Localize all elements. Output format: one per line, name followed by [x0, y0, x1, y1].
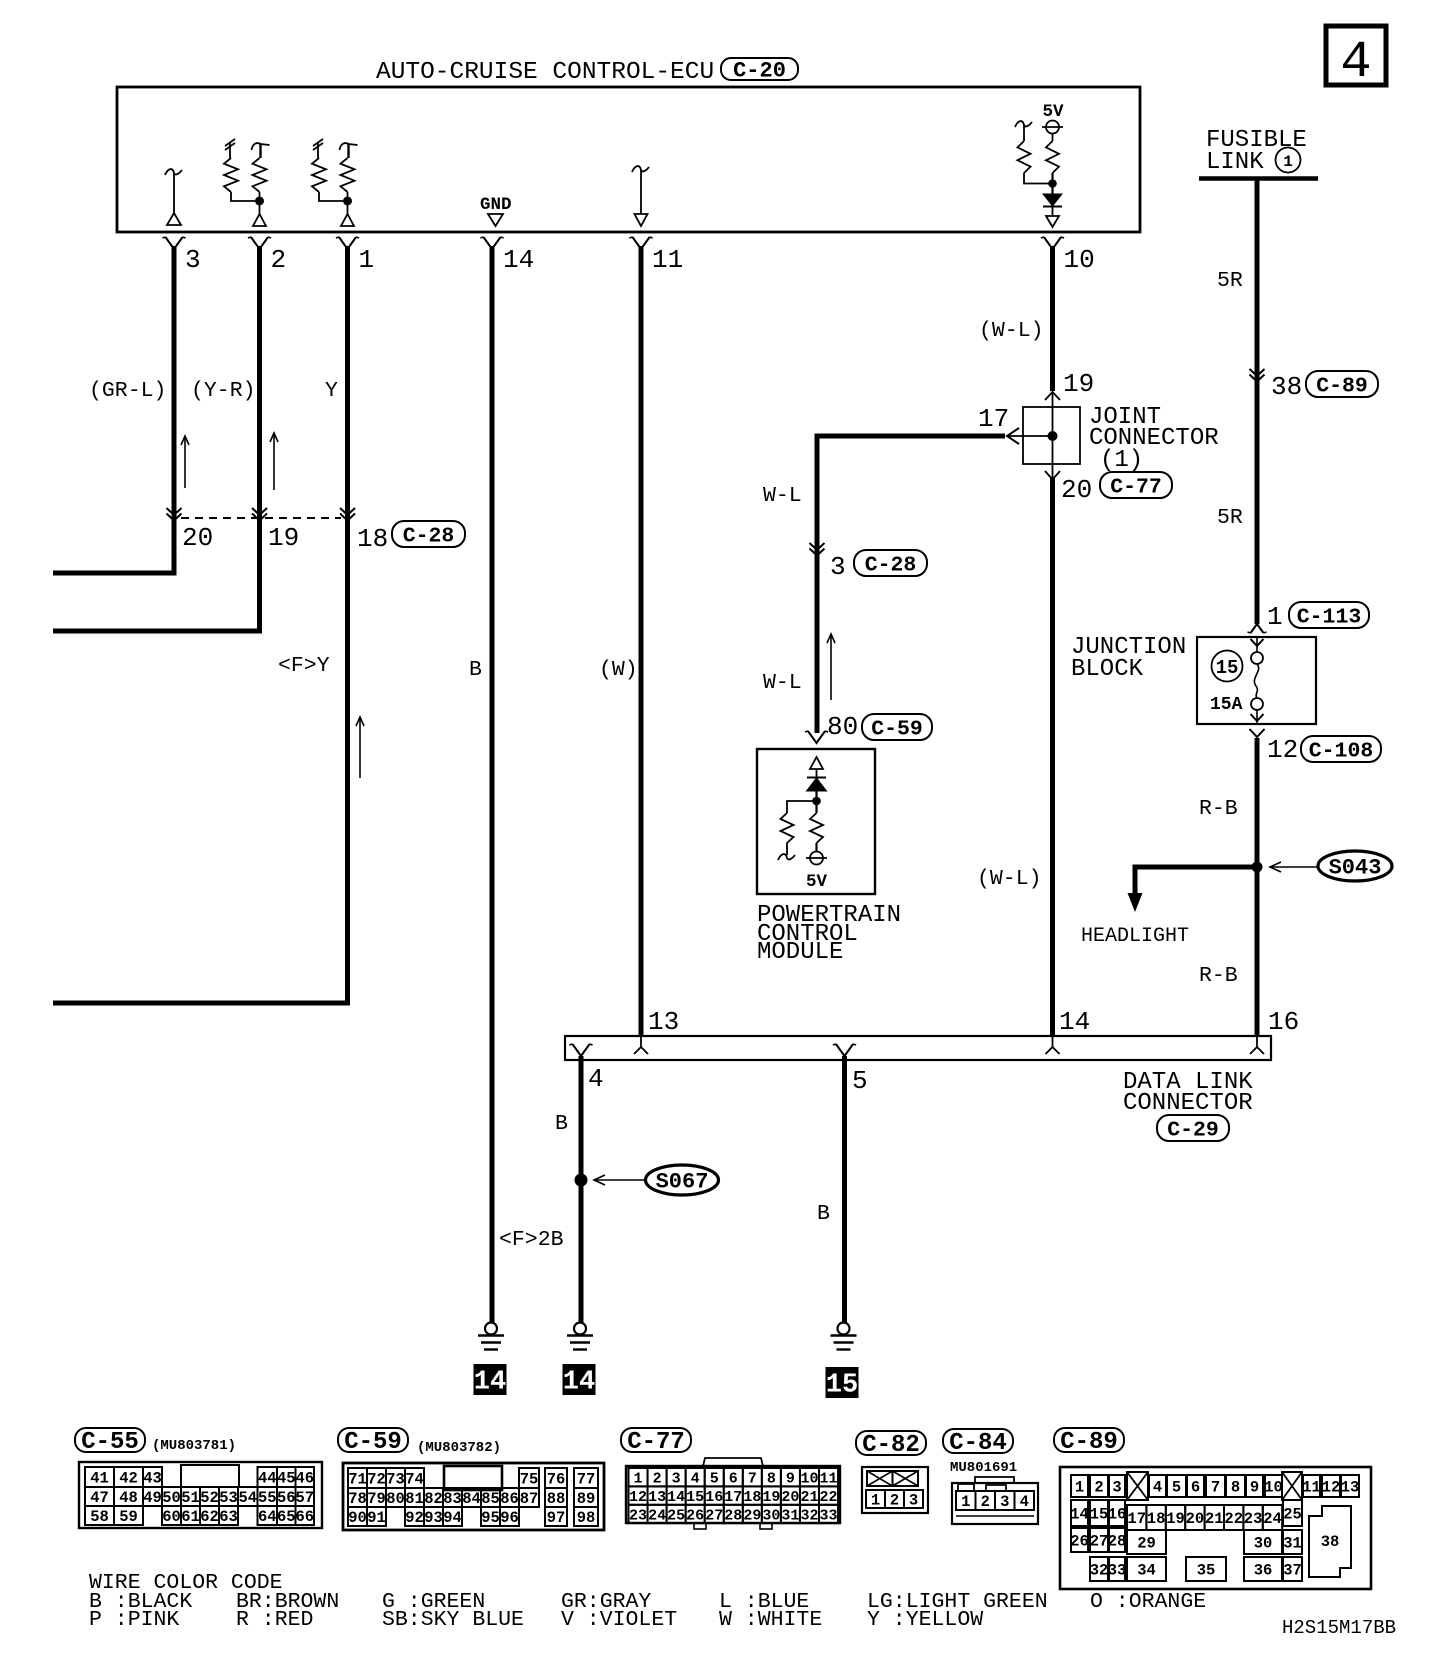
svg-text:88: 88	[547, 1490, 566, 1508]
fusible link bus bar	[1199, 176, 1318, 181]
svg-text:9: 9	[786, 1471, 795, 1488]
svg-text:R-B: R-B	[1199, 797, 1238, 821]
svg-text:C-59: C-59	[871, 717, 923, 741]
svg-text:AUTO-CRUISE CONTROL-ECU: AUTO-CRUISE CONTROL-ECU	[376, 59, 714, 86]
svg-text:W-L: W-L	[763, 671, 802, 695]
svg-text:24: 24	[648, 1507, 666, 1524]
svg-text:29: 29	[1137, 1535, 1156, 1553]
svg-text:24: 24	[1263, 1510, 1282, 1528]
svg-text:W :WHITE: W :WHITE	[719, 1608, 822, 1632]
svg-text:C-77: C-77	[627, 1429, 685, 1456]
PCM internal clamp diode and resistors	[778, 757, 827, 892]
svg-text:5V: 5V	[1042, 102, 1064, 122]
svg-text:20: 20	[182, 523, 213, 553]
svg-text:(MU803782): (MU803782)	[417, 1440, 501, 1456]
connector C-84 pin face	[952, 1477, 1038, 1524]
ECU pin 10	[1041, 237, 1095, 275]
wire colour label 5R lower	[1217, 506, 1243, 530]
connector C-84 label	[943, 1429, 1017, 1476]
svg-text:93: 93	[424, 1509, 443, 1527]
svg-text:1: 1	[1283, 153, 1293, 171]
ECU pin 11	[629, 237, 683, 275]
terminal symbol pin 11 internal (output arrow)	[632, 166, 649, 226]
svg-text:83: 83	[443, 1490, 462, 1508]
svg-text:35: 35	[1197, 1562, 1216, 1580]
connector C-55 label	[75, 1428, 236, 1456]
svg-text:4: 4	[691, 1471, 700, 1488]
up arrow on W-L wire	[827, 634, 835, 700]
svg-text:17: 17	[1127, 1510, 1146, 1528]
svg-text:16: 16	[705, 1489, 723, 1506]
svg-text:6: 6	[1191, 1479, 1200, 1497]
svg-text:73: 73	[386, 1471, 405, 1489]
svg-text:5R: 5R	[1217, 269, 1243, 293]
DLC pin 4	[569, 1044, 603, 1094]
splice S043	[1252, 851, 1393, 881]
svg-text:82: 82	[424, 1490, 443, 1508]
JOINT CONNECTOR (1) label	[1089, 404, 1219, 474]
splice S067	[575, 1165, 719, 1195]
svg-text:85: 85	[481, 1490, 500, 1508]
svg-text:16: 16	[1268, 1007, 1299, 1037]
svg-text:2: 2	[653, 1471, 662, 1488]
svg-text:78: 78	[348, 1490, 367, 1508]
svg-text:49: 49	[143, 1489, 162, 1507]
svg-text:22: 22	[1224, 1510, 1243, 1528]
joint connector (1) box	[1023, 407, 1080, 464]
svg-text:26: 26	[1070, 1533, 1089, 1551]
svg-text:65: 65	[277, 1508, 296, 1526]
svg-text:C-89: C-89	[1060, 1429, 1118, 1456]
svg-text:32: 32	[1090, 1562, 1109, 1580]
svg-text:7: 7	[1211, 1479, 1220, 1497]
wire colour label (F)Y	[278, 654, 330, 678]
svg-text:96: 96	[500, 1509, 519, 1527]
svg-text:57: 57	[295, 1489, 314, 1507]
svg-text:GND: GND	[480, 195, 512, 215]
svg-text:15: 15	[686, 1489, 704, 1506]
wire colour label (F)2B	[499, 1228, 564, 1252]
svg-text:2: 2	[1094, 1479, 1103, 1497]
joint connector pin 19	[1045, 369, 1094, 400]
svg-text:1: 1	[634, 1471, 643, 1488]
svg-text:41: 41	[90, 1470, 109, 1488]
svg-text:R :RED: R :RED	[236, 1608, 313, 1632]
svg-text:14: 14	[474, 1368, 506, 1398]
svg-text:50: 50	[162, 1489, 181, 1507]
svg-text:14: 14	[503, 245, 534, 275]
svg-text:19: 19	[1063, 369, 1094, 399]
connector C-77 pin face	[626, 1458, 840, 1529]
wire colour label R-B upper	[1199, 797, 1238, 821]
svg-text:(W): (W)	[599, 658, 638, 682]
svg-text:C-59: C-59	[344, 1429, 402, 1456]
connector C-59 label	[338, 1428, 501, 1456]
svg-text:<F>2B: <F>2B	[499, 1228, 564, 1252]
svg-text:11: 11	[820, 1471, 838, 1488]
svg-text:80: 80	[827, 712, 858, 742]
svg-text:1: 1	[359, 245, 375, 275]
svg-text:5: 5	[710, 1471, 719, 1488]
ground ref box 14 (right)	[563, 1364, 596, 1398]
svg-text:31: 31	[781, 1507, 799, 1524]
wire colour label 5R upper	[1217, 269, 1243, 293]
svg-text:B: B	[469, 658, 482, 682]
svg-text:15: 15	[1216, 657, 1239, 679]
svg-text:29: 29	[743, 1507, 761, 1524]
resistor pair above pin 1	[312, 139, 358, 226]
junction block pin 1 C-113	[1248, 602, 1370, 633]
svg-text:R-B: R-B	[1199, 964, 1238, 988]
branch wire to headlight with arrow	[1128, 867, 1258, 912]
svg-text:92: 92	[405, 1509, 424, 1527]
svg-text:C-108: C-108	[1309, 739, 1374, 763]
svg-text:SB:SKY BLUE: SB:SKY BLUE	[382, 1608, 524, 1632]
wire colour label (GR-L)	[89, 379, 166, 403]
wire pin 10 (W-L) lower	[1050, 478, 1055, 1036]
svg-text:(GR-L): (GR-L)	[89, 379, 166, 403]
svg-text:3: 3	[672, 1471, 681, 1488]
fuse 15 15A inside junction block	[1210, 637, 1264, 724]
svg-text:37: 37	[1283, 1562, 1302, 1580]
ECU box	[117, 87, 1140, 232]
ground ref box 15	[826, 1367, 859, 1401]
svg-text:5: 5	[852, 1066, 868, 1096]
svg-text:4: 4	[1020, 1493, 1029, 1511]
svg-text:52: 52	[200, 1489, 219, 1507]
svg-text:3: 3	[830, 552, 846, 582]
JUNCTION BLOCK label	[1071, 634, 1186, 683]
up arrow on wire 2	[270, 433, 278, 490]
connector C-89 label	[1054, 1428, 1124, 1456]
svg-text:63: 63	[219, 1508, 238, 1526]
POWERTRAIN CONTROL MODULE label	[757, 902, 901, 966]
svg-text:51: 51	[181, 1489, 200, 1507]
svg-text:9: 9	[1250, 1479, 1259, 1497]
svg-text:4: 4	[1340, 33, 1371, 92]
svg-text:Y :YELLOW: Y :YELLOW	[867, 1608, 983, 1632]
svg-text:87: 87	[520, 1490, 539, 1508]
svg-text:22: 22	[820, 1489, 838, 1506]
svg-text:33: 33	[820, 1507, 838, 1524]
svg-text:MODULE: MODULE	[757, 939, 843, 966]
ground ref box 14 (left)	[474, 1364, 507, 1398]
svg-text:(W-L): (W-L)	[977, 867, 1042, 891]
svg-text:MU801691: MU801691	[950, 1460, 1017, 1476]
svg-text:16: 16	[1108, 1506, 1127, 1524]
svg-text:BLOCK: BLOCK	[1071, 656, 1144, 683]
svg-text:27: 27	[1090, 1533, 1109, 1551]
svg-text:1: 1	[961, 1493, 970, 1511]
ground for ECU pin 14 wire	[478, 1323, 504, 1350]
connector C-55 pin face	[79, 1462, 322, 1528]
svg-text:76: 76	[547, 1471, 566, 1489]
wire pin 1 Y	[53, 246, 348, 1003]
svg-text:18: 18	[743, 1489, 761, 1506]
ECU pin 2	[248, 237, 286, 275]
svg-text:58: 58	[90, 1508, 109, 1526]
svg-text:O :ORANGE: O :ORANGE	[1090, 1590, 1206, 1614]
wire pin 11 (W)	[639, 246, 644, 1036]
svg-text:43: 43	[143, 1470, 162, 1488]
svg-text:84: 84	[462, 1490, 481, 1508]
DATA LINK CONNECTOR C-29 label	[1123, 1069, 1253, 1142]
svg-text:C-84: C-84	[949, 1430, 1007, 1457]
svg-text:S067: S067	[656, 1169, 709, 1194]
svg-text:59: 59	[119, 1508, 138, 1526]
joint connector pin 20	[1045, 471, 1172, 505]
svg-text:45: 45	[277, 1470, 296, 1488]
svg-text:36: 36	[1254, 1562, 1273, 1580]
svg-text:<F>Y: <F>Y	[278, 654, 330, 678]
wire pin 14 B	[490, 246, 495, 1322]
svg-text:42: 42	[119, 1470, 138, 1488]
svg-text:19: 19	[762, 1489, 780, 1506]
connector C-59 pin face	[343, 1463, 604, 1530]
svg-text:44: 44	[258, 1470, 277, 1488]
wire pin 10 (W-L) upper	[1050, 246, 1055, 391]
svg-text:3: 3	[909, 1492, 918, 1510]
wire colour label (Y-R)	[191, 379, 256, 403]
svg-text:12: 12	[1267, 735, 1298, 765]
svg-text:38: 38	[1271, 372, 1302, 402]
pin 20 label	[182, 523, 213, 553]
in-line connector C-28 chevrons and dashed link	[167, 508, 356, 521]
svg-text:15A: 15A	[1210, 695, 1243, 715]
wire pin 3 (GR-L)	[53, 246, 174, 573]
svg-text:98: 98	[577, 1509, 596, 1527]
svg-text:5V: 5V	[806, 872, 828, 892]
wire colour label B (DLC 5)	[817, 1202, 830, 1226]
svg-text:C-55: C-55	[81, 1429, 139, 1456]
DLC pin 14	[1046, 1007, 1091, 1054]
svg-text:11: 11	[652, 245, 683, 275]
svg-text:11: 11	[1302, 1479, 1321, 1497]
svg-text:86: 86	[500, 1490, 519, 1508]
PCM pin 80 and C-59 ref	[805, 712, 932, 743]
connector C-89 pin face	[1060, 1467, 1371, 1589]
svg-text:25: 25	[667, 1507, 685, 1524]
svg-text:19: 19	[268, 523, 299, 553]
joint connector pin 17 label	[978, 404, 1009, 434]
wire 5R upper	[1255, 178, 1260, 624]
svg-text:62: 62	[200, 1508, 219, 1526]
svg-text:17: 17	[724, 1489, 742, 1506]
ground for DLC pin 4 wire	[567, 1323, 593, 1350]
svg-text:18: 18	[357, 524, 388, 554]
svg-text:13: 13	[648, 1007, 679, 1037]
ECU pin 14	[480, 237, 534, 275]
drawing number H2S15M17BB	[1282, 1617, 1396, 1639]
FUSIBLE LINK 1 label	[1206, 127, 1307, 176]
wire W-L to PCM	[817, 436, 1005, 733]
wire DLC pin 4 B	[579, 1056, 584, 1322]
svg-text:32: 32	[800, 1507, 818, 1524]
terminal symbol pin 3 internal	[165, 169, 182, 225]
svg-text:20: 20	[1186, 1510, 1205, 1528]
svg-text:28: 28	[1108, 1533, 1127, 1551]
svg-text:8: 8	[767, 1471, 776, 1488]
svg-text:1: 1	[1075, 1479, 1084, 1497]
wire colour label (W-L) lower	[977, 867, 1042, 891]
svg-text:(Y-R): (Y-R)	[191, 379, 256, 403]
svg-text:P :PINK: P :PINK	[89, 1608, 179, 1632]
svg-text:5R: 5R	[1217, 506, 1243, 530]
svg-text:W-L: W-L	[763, 484, 802, 508]
svg-text:S043: S043	[1329, 855, 1382, 880]
svg-text:C-82: C-82	[862, 1432, 920, 1459]
svg-text:61: 61	[181, 1508, 200, 1526]
svg-text:CONNECTOR: CONNECTOR	[1123, 1090, 1253, 1117]
svg-text:38: 38	[1321, 1533, 1340, 1551]
svg-text:95: 95	[481, 1509, 500, 1527]
svg-text:14: 14	[563, 1368, 595, 1398]
svg-text:23: 23	[1244, 1510, 1263, 1528]
svg-text:48: 48	[119, 1489, 138, 1507]
svg-text:C-28: C-28	[865, 553, 917, 577]
svg-text:33: 33	[1108, 1562, 1127, 1580]
svg-text:74: 74	[405, 1471, 424, 1489]
svg-text:97: 97	[547, 1509, 566, 1527]
resistor pair above pin 2	[224, 139, 270, 226]
svg-text:13: 13	[1341, 1479, 1360, 1497]
5V pull-up network above pin 10	[1015, 102, 1064, 227]
wire colour label B (pin14)	[469, 658, 482, 682]
DLC pin 16	[1250, 1007, 1299, 1054]
svg-text:64: 64	[258, 1508, 277, 1526]
svg-text:55: 55	[258, 1489, 277, 1507]
svg-text:C-113: C-113	[1297, 605, 1362, 629]
svg-text:V :VIOLET: V :VIOLET	[561, 1608, 677, 1632]
wire colour label B (DLC 4)	[555, 1112, 568, 1136]
svg-text:14: 14	[1070, 1506, 1089, 1524]
wire pin 2 (Y-R)	[53, 246, 260, 631]
svg-text:27: 27	[705, 1507, 723, 1524]
page number box 4	[1326, 26, 1386, 92]
svg-text:C-29: C-29	[1167, 1118, 1219, 1142]
chevron connector 38 C-89	[1250, 369, 1379, 402]
svg-text:72: 72	[367, 1471, 386, 1489]
wire colour label Y	[325, 379, 338, 403]
svg-text:C-20: C-20	[733, 58, 786, 83]
svg-text:19: 19	[1166, 1510, 1185, 1528]
wire colour label W-L lower	[763, 671, 802, 695]
svg-text:7: 7	[748, 1471, 757, 1488]
svg-text:Y: Y	[325, 379, 338, 403]
svg-text:B: B	[817, 1202, 830, 1226]
pin 18 label and C-28 ref	[357, 521, 465, 554]
svg-text:12: 12	[629, 1489, 647, 1506]
wire colour label W-L upper	[763, 484, 802, 508]
svg-text:20: 20	[1061, 475, 1092, 505]
svg-text:15: 15	[1090, 1506, 1109, 1524]
chevron connector 3 C-28 on W-L wire	[810, 543, 928, 582]
wire DLC pin 5 B	[842, 1056, 847, 1322]
svg-text:6: 6	[729, 1471, 738, 1488]
connector C-77 label	[621, 1428, 691, 1456]
up arrow on wire 1	[356, 717, 364, 778]
svg-text:10: 10	[800, 1471, 818, 1488]
svg-text:C-28: C-28	[403, 524, 455, 548]
svg-text:18: 18	[1147, 1510, 1166, 1528]
svg-text:21: 21	[800, 1489, 818, 1506]
svg-text:34: 34	[1137, 1562, 1156, 1580]
svg-text:3: 3	[1000, 1493, 1009, 1511]
svg-text:(W-L): (W-L)	[979, 319, 1044, 343]
svg-text:31: 31	[1283, 1535, 1302, 1553]
svg-text:54: 54	[238, 1489, 257, 1507]
svg-text:13: 13	[648, 1489, 666, 1506]
wire colour label (W)	[599, 658, 638, 682]
svg-text:8: 8	[1231, 1479, 1240, 1497]
svg-text:14: 14	[667, 1489, 685, 1506]
ground for DLC pin 5 wire	[831, 1323, 857, 1350]
svg-text:(1): (1)	[1100, 447, 1143, 474]
svg-text:5: 5	[1172, 1479, 1181, 1497]
data link connector box	[565, 1036, 1271, 1060]
wire colour label (W-L) upper	[979, 319, 1044, 343]
ECU pin 3	[162, 237, 200, 275]
svg-text:(MU803781): (MU803781)	[152, 1438, 236, 1454]
svg-text:1: 1	[871, 1492, 880, 1510]
svg-text:30: 30	[762, 1507, 780, 1524]
svg-text:10: 10	[1264, 1479, 1283, 1497]
svg-text:94: 94	[443, 1509, 462, 1527]
svg-text:HEADLIGHT: HEADLIGHT	[1081, 925, 1189, 948]
svg-text:75: 75	[520, 1471, 539, 1489]
svg-text:47: 47	[90, 1489, 109, 1507]
junction block pin 12 C-108	[1250, 729, 1382, 765]
connector C-82 label	[856, 1431, 926, 1459]
svg-text:15: 15	[826, 1371, 858, 1401]
svg-text:77: 77	[577, 1471, 596, 1489]
svg-text:14: 14	[1059, 1007, 1090, 1037]
svg-text:81: 81	[405, 1490, 424, 1508]
svg-text:79: 79	[367, 1490, 386, 1508]
svg-text:56: 56	[277, 1489, 296, 1507]
HEADLIGHT label	[1081, 925, 1189, 948]
wire R-B lower	[1255, 738, 1260, 1036]
svg-text:C-89: C-89	[1316, 374, 1368, 398]
svg-text:23: 23	[629, 1507, 647, 1524]
svg-text:2: 2	[271, 245, 287, 275]
joint connector internal line and junction	[1007, 392, 1058, 478]
svg-text:3: 3	[1112, 1479, 1121, 1497]
svg-text:53: 53	[219, 1489, 238, 1507]
svg-text:2: 2	[981, 1493, 990, 1511]
svg-text:20: 20	[781, 1489, 799, 1506]
wire color code legend	[89, 1571, 1206, 1632]
svg-text:26: 26	[686, 1507, 704, 1524]
svg-text:46: 46	[295, 1470, 314, 1488]
DLC pin 13	[634, 1007, 679, 1054]
svg-text:66: 66	[295, 1508, 314, 1526]
svg-text:4: 4	[1153, 1479, 1162, 1497]
connector ref C-20	[721, 58, 798, 83]
svg-text:60: 60	[162, 1508, 181, 1526]
svg-text:C-77: C-77	[1110, 475, 1162, 499]
ECU pin 1	[336, 237, 374, 275]
svg-text:12: 12	[1322, 1479, 1341, 1497]
svg-text:91: 91	[367, 1509, 386, 1527]
svg-text:90: 90	[348, 1509, 367, 1527]
svg-text:10: 10	[1064, 245, 1095, 275]
svg-text:28: 28	[724, 1507, 742, 1524]
svg-text:30: 30	[1254, 1535, 1273, 1553]
svg-text:3: 3	[185, 245, 201, 275]
svg-text:H2S15M17BB: H2S15M17BB	[1282, 1617, 1396, 1639]
junction block box	[1197, 637, 1316, 724]
